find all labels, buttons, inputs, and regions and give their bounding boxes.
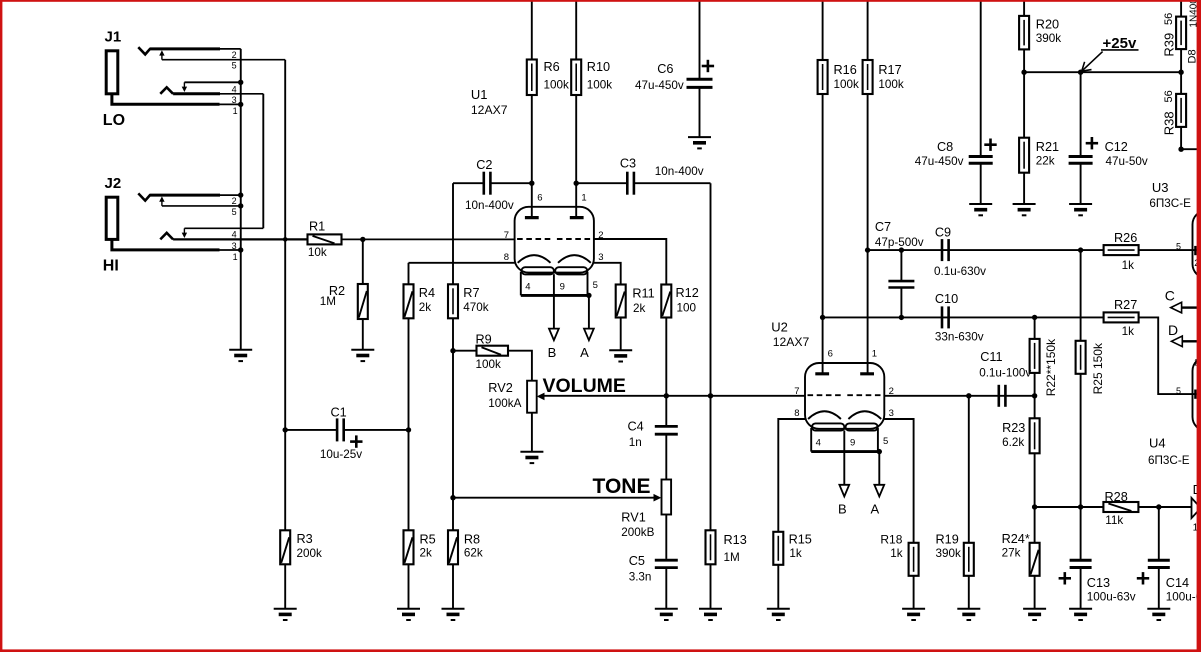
- svg-text:5: 5: [232, 207, 237, 217]
- border frame: [0, 0, 1201, 2]
- svg-text:U3: U3: [1152, 180, 1169, 195]
- svg-text:5: 5: [232, 61, 237, 71]
- svg-text:LO: LO: [103, 112, 125, 129]
- svg-text:R13: R13: [724, 533, 747, 547]
- node tone tap: [450, 495, 455, 500]
- node C12 top: [1078, 70, 1083, 75]
- svg-text:VOLUME: VOLUME: [543, 375, 626, 397]
- svg-text:R16: R16: [834, 63, 857, 77]
- svg-text:12AX7: 12AX7: [773, 335, 810, 349]
- svg-text:0.1u-100v: 0.1u-100v: [979, 366, 1031, 379]
- svg-text:2k: 2k: [633, 302, 646, 315]
- resistor R39: [1162, 2, 1187, 73]
- capacitor C1: [285, 406, 408, 461]
- wire input node down to C1 and R3: [284, 239, 286, 530]
- node C7 bottom: [899, 315, 904, 320]
- svg-text:R25 150k: R25 150k: [1091, 342, 1105, 394]
- ground R11: [609, 350, 632, 361]
- svg-text:R19: R19: [936, 533, 959, 547]
- ground C12: [1069, 204, 1092, 215]
- resistor R15: [773, 419, 812, 609]
- svg-text:56: 56: [1163, 90, 1175, 102]
- svg-text:6П3С-Е: 6П3С-Е: [1149, 197, 1191, 210]
- node R1-R2 junction: [360, 237, 365, 242]
- svg-text:390k: 390k: [936, 547, 962, 560]
- svg-text:100kA: 100kA: [488, 397, 521, 410]
- svg-text:C: C: [1165, 287, 1175, 303]
- wire C2 left to R7 top: [452, 183, 454, 284]
- resistor R13: [706, 530, 747, 608]
- svg-text:C1: C1: [331, 406, 347, 420]
- svg-text:4: 4: [232, 84, 237, 94]
- resistor R22: [1030, 317, 1058, 418]
- svg-text:3: 3: [232, 95, 237, 105]
- svg-text:4: 4: [232, 229, 237, 239]
- svg-text:100k: 100k: [834, 78, 860, 91]
- resistor R12: [594, 239, 699, 396]
- wire HI input row to grid pin7 of U1: [173, 238, 307, 240]
- node C10 to R22: [1032, 315, 1037, 320]
- wire R23/R24 node row: [1035, 506, 1104, 508]
- node R28 right / C14 top: [1156, 504, 1161, 509]
- svg-text:1: 1: [233, 252, 238, 262]
- svg-text:200kB: 200kB: [621, 526, 654, 539]
- resistor R9: [453, 332, 532, 380]
- node input vertical crossing: [283, 237, 288, 242]
- resistor R1: [308, 220, 342, 260]
- capacitor C3: [576, 157, 710, 195]
- svg-text:10n-400v: 10n-400v: [655, 165, 704, 178]
- svg-text:R24*: R24*: [1002, 532, 1030, 546]
- svg-text:R26: R26: [1114, 231, 1137, 245]
- svg-text:U4: U4: [1149, 436, 1166, 451]
- svg-text:TONE: TONE: [593, 475, 651, 498]
- svg-text:5: 5: [1176, 241, 1181, 251]
- svg-text:470k: 470k: [463, 301, 489, 314]
- svg-text:C5: C5: [629, 554, 645, 568]
- ground R15: [767, 609, 790, 620]
- svg-text:HI: HI: [103, 257, 119, 274]
- svg-text:100k: 100k: [878, 78, 904, 91]
- svg-text:0.1u-630v: 0.1u-630v: [934, 265, 986, 278]
- resistor R21: [1019, 72, 1059, 204]
- resistor R5: [404, 530, 436, 608]
- svg-text:1M: 1M: [724, 551, 740, 564]
- svg-text:C14: C14: [1166, 576, 1189, 590]
- svg-text:R8: R8: [464, 533, 480, 547]
- svg-text:R4: R4: [419, 286, 435, 300]
- svg-text:R18: R18: [880, 533, 902, 547]
- capacitor C13 electrolytic: [1059, 507, 1136, 609]
- svg-text:47u-50v: 47u-50v: [1106, 155, 1148, 168]
- wire J1 switch down to input node: [284, 60, 286, 240]
- node R20/R21 +25v: [1021, 70, 1026, 75]
- wire U1 cathode pin8 row: [409, 262, 515, 264]
- svg-text:R10: R10: [587, 60, 610, 74]
- node C2 to R6 plate: [529, 181, 534, 186]
- wire C10 row: [823, 316, 1104, 318]
- svg-text:10n-400v: 10n-400v: [465, 199, 514, 212]
- svg-text:1k: 1k: [1122, 259, 1135, 272]
- svg-text:1: 1: [233, 106, 238, 116]
- node C11 left / R19 top: [966, 393, 971, 398]
- svg-text:1n: 1n: [629, 436, 642, 449]
- resistor R6: [527, 2, 569, 218]
- svg-text:U2: U2: [771, 320, 788, 335]
- svg-text:U1: U1: [471, 87, 488, 102]
- node +25v to R38/R39: [1178, 70, 1183, 75]
- resistor R7: [448, 284, 489, 318]
- wire R7 to R9 node and down to R8 and tone node: [452, 318, 454, 530]
- svg-text:C9: C9: [935, 226, 951, 240]
- resistor R2: [320, 239, 368, 349]
- svg-text:R15: R15: [789, 533, 812, 547]
- node C1 left junction: [283, 427, 288, 432]
- svg-text:R9: R9: [476, 332, 492, 346]
- svg-text:R39: R39: [1162, 33, 1177, 57]
- svg-text:33n-630v: 33n-630v: [935, 331, 984, 344]
- svg-text:1k: 1k: [789, 547, 802, 560]
- svg-text:R38: R38: [1162, 111, 1177, 135]
- svg-text:J1: J1: [105, 29, 122, 46]
- svg-text:100u-63v: 100u-63v: [1166, 590, 1201, 603]
- wire J1 ring to J2 pin4 link: [262, 94, 264, 229]
- node C3/R13 tap: [708, 393, 713, 398]
- capacitor C10: [935, 292, 984, 343]
- resistor R16: [818, 2, 859, 374]
- svg-text:C6: C6: [657, 62, 673, 76]
- ground R18: [902, 609, 925, 620]
- ground R2: [351, 350, 374, 361]
- node R38 bottom stub: [1178, 147, 1183, 152]
- svg-text:R3: R3: [297, 532, 313, 546]
- resistor R24: [1002, 532, 1040, 609]
- node R17 to C9 row: [865, 247, 870, 252]
- wire C9 row: [868, 249, 1104, 251]
- node R23 bottom: [1032, 504, 1037, 509]
- svg-text:R6: R6: [544, 60, 560, 74]
- svg-text:200k: 200k: [297, 547, 323, 560]
- ground C13: [1069, 609, 1092, 620]
- potentiometer RV1 tone: [453, 480, 671, 559]
- svg-text:R1: R1: [309, 220, 325, 234]
- resistor R11: [594, 263, 655, 350]
- svg-text:C13: C13: [1087, 576, 1110, 590]
- ground C8: [969, 204, 992, 215]
- svg-text:62k: 62k: [464, 547, 483, 560]
- svg-text:47u-450v: 47u-450v: [915, 155, 964, 168]
- connector J2 input jack: [103, 175, 263, 274]
- junction dots on jack bus: [238, 80, 243, 85]
- svg-text:C2: C2: [476, 158, 492, 172]
- tube U4 6P3S-E partial: [1148, 357, 1201, 467]
- net arrow C: [1165, 287, 1197, 313]
- capacitor C7: [875, 220, 924, 318]
- ground R5: [397, 609, 420, 620]
- svg-text:C4: C4: [628, 420, 644, 434]
- wire +25v rail: [1024, 71, 1181, 73]
- svg-text:5: 5: [1176, 386, 1181, 396]
- capacitor C12 electrolytic: [1069, 72, 1148, 204]
- svg-text:R21: R21: [1036, 140, 1059, 154]
- resistor R28: [1103, 490, 1191, 527]
- wire R1 to U1 grid: [342, 238, 515, 240]
- ground RV2: [520, 452, 543, 463]
- wire jack ground bus: [240, 49, 242, 350]
- potentiometer RV2 volume: [488, 381, 544, 452]
- tube U3 6P3S-E partial: [1149, 180, 1201, 278]
- svg-text:1k: 1k: [890, 547, 903, 560]
- ground C6: [688, 137, 711, 148]
- svg-text:C12: C12: [1105, 140, 1128, 154]
- svg-text:6П3С-Е: 6П3С-Е: [1148, 454, 1190, 467]
- svg-text:C11: C11: [980, 350, 1002, 364]
- svg-text:3.3n: 3.3n: [629, 571, 652, 584]
- svg-text:2k: 2k: [419, 301, 432, 314]
- resistor R26: [1104, 231, 1197, 272]
- node R25 bottom / C13 top: [1078, 504, 1083, 509]
- ground jack bus: [229, 350, 252, 361]
- resistor R23: [1002, 418, 1040, 543]
- svg-text:C3: C3: [620, 157, 636, 171]
- node R9 tap: [450, 348, 455, 353]
- resistor R3: [280, 530, 322, 608]
- svg-text:100k: 100k: [544, 79, 570, 92]
- ground R24: [1023, 609, 1046, 620]
- svg-text:100k: 100k: [476, 358, 502, 371]
- node C11 right: [1032, 393, 1037, 398]
- svg-text:D: D: [1168, 322, 1178, 338]
- resistor R20: [1019, 2, 1061, 73]
- capacitor C2: [453, 158, 532, 212]
- svg-text:11k: 11k: [1105, 514, 1123, 527]
- svg-text:1k: 1k: [1122, 325, 1135, 338]
- ground R3: [274, 609, 297, 620]
- node C1 right junction: [406, 427, 411, 432]
- svg-text:C10: C10: [935, 292, 958, 306]
- node C9 to R25/R26: [1078, 247, 1083, 252]
- svg-text:6.2k: 6.2k: [1002, 436, 1024, 449]
- resistor R8: [448, 530, 483, 608]
- wire R4 to R5: [408, 318, 410, 530]
- svg-text:27k: 27k: [1002, 547, 1021, 560]
- svg-text:10u-25v: 10u-25v: [320, 448, 362, 461]
- svg-text:2k: 2k: [420, 547, 433, 560]
- svg-text:12AX7: 12AX7: [471, 103, 508, 117]
- svg-text:100k: 100k: [587, 79, 613, 92]
- capacitor C8 electrolytic: [915, 2, 997, 205]
- tube U2 12AX7 dual triode: [771, 320, 894, 517]
- svg-text:10k: 10k: [308, 246, 327, 259]
- svg-text:22k: 22k: [1036, 154, 1055, 167]
- svg-text:R11: R11: [632, 287, 654, 301]
- node C4 top: [664, 393, 669, 398]
- net label +25v with arrow: [1082, 35, 1139, 71]
- resistor R25: [1076, 250, 1105, 507]
- svg-text:47u-450v: 47u-450v: [635, 79, 684, 92]
- resistor R17: [863, 2, 904, 374]
- wire RV2 wiper row to U2 grid: [545, 395, 806, 397]
- resistor R10: [571, 2, 612, 218]
- svg-text:R12: R12: [676, 286, 699, 300]
- svg-text:C7: C7: [875, 220, 891, 234]
- svg-text:J2: J2: [105, 175, 122, 192]
- svg-text:R28: R28: [1105, 490, 1128, 504]
- svg-text:R20: R20: [1036, 18, 1059, 32]
- capacitor C11: [884, 350, 1034, 407]
- resistor R27: [1104, 298, 1197, 394]
- svg-text:R23: R23: [1002, 421, 1025, 435]
- tube U1 12AX7 dual triode: [471, 87, 604, 360]
- svg-text:RV1: RV1: [621, 511, 645, 525]
- off-page arrow right: [1192, 498, 1201, 518]
- connector J1 input jack: [103, 29, 285, 129]
- wire C3 down to volume node and R13: [710, 183, 712, 530]
- ground C5: [655, 609, 678, 620]
- svg-text:390k: 390k: [1036, 32, 1062, 45]
- svg-text:47p-500v: 47p-500v: [875, 236, 924, 249]
- svg-text:R17: R17: [878, 63, 901, 77]
- svg-text:R7: R7: [463, 286, 479, 300]
- svg-text:C8: C8: [937, 140, 953, 154]
- svg-text:R27: R27: [1114, 298, 1137, 312]
- capacitor C5: [629, 554, 678, 609]
- svg-text:R5: R5: [420, 533, 436, 547]
- capacitor C6 electrolytic: [635, 2, 714, 138]
- capacitor C4: [628, 396, 678, 480]
- svg-text:56: 56: [1163, 13, 1175, 25]
- svg-text:RV2: RV2: [488, 381, 512, 395]
- ground R21: [1013, 204, 1036, 215]
- resistor R4: [404, 263, 436, 319]
- svg-text:2: 2: [232, 196, 237, 206]
- svg-text:R22**150k: R22**150k: [1044, 338, 1058, 396]
- capacitor C9: [934, 226, 986, 278]
- node C3 to R10 plate: [574, 181, 579, 186]
- svg-text:3: 3: [232, 241, 237, 251]
- ground R19: [957, 609, 980, 620]
- ground R8: [442, 609, 465, 620]
- svg-text:1M: 1M: [320, 295, 336, 308]
- svg-text:100u-63v: 100u-63v: [1087, 590, 1136, 603]
- resistor R19: [936, 396, 974, 609]
- svg-text:100: 100: [677, 302, 697, 315]
- resistor R38: [1162, 72, 1187, 149]
- capacitor C14 electrolytic: [1137, 507, 1201, 609]
- resistor R18: [880, 419, 918, 609]
- svg-text:2: 2: [232, 50, 237, 60]
- node C7 top: [899, 247, 904, 252]
- ground R13: [699, 609, 722, 620]
- ground C14: [1147, 609, 1170, 620]
- net arrow D: [1168, 322, 1197, 346]
- node R16 to C10 row: [820, 315, 825, 320]
